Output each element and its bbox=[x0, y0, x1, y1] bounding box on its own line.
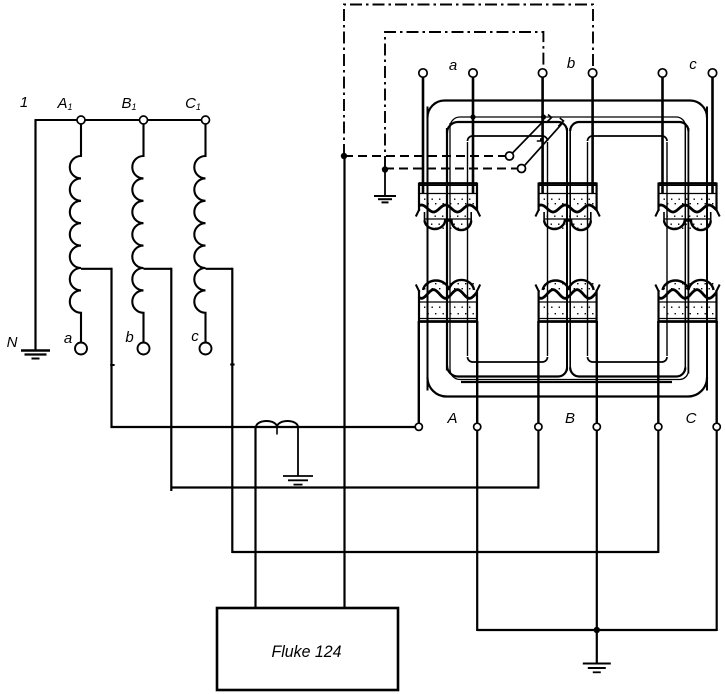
instrument Fluke 124 box bbox=[217, 608, 398, 690]
inductor winding C (upper section) bbox=[194, 124, 205, 268]
wire top link y=136 left bbox=[468, 136, 548, 141]
wire shield outer to switch (dashed) bbox=[344, 155, 505, 157]
wire winding lead vertical x=688.4 bbox=[687, 128, 689, 374]
ground N bbox=[21, 349, 50, 352]
wire bottom link y=382 bbox=[461, 381, 672, 383]
wire terminal A1 bottom lead bbox=[418, 321, 420, 423]
switch S1 jaw 1 bbox=[547, 115, 552, 123]
terminal C1 top bbox=[202, 116, 210, 124]
junction b1-y117 bbox=[541, 114, 546, 119]
terminal a bottom bbox=[75, 343, 87, 355]
ground bottom right bbox=[583, 663, 611, 665]
wire fluke lead 1 bbox=[254, 427, 256, 608]
terminal A1 top bbox=[77, 116, 85, 124]
wire terminal B1 bottom lead bbox=[537, 321, 539, 423]
wire tap C down bbox=[231, 268, 233, 553]
terminal a1 top circle bbox=[419, 69, 427, 77]
wire B2 down to ground bbox=[596, 430, 598, 663]
wire winding lead vertical x=547.5 bbox=[547, 142, 549, 356]
tap wire B bbox=[144, 268, 172, 270]
tap wire C bbox=[206, 268, 233, 270]
terminal B1 top bbox=[140, 116, 148, 124]
wire terminal A2 bottom lead bbox=[476, 321, 478, 423]
winding block c lower bbox=[655, 280, 719, 323]
winding block a lower bbox=[416, 280, 480, 323]
wire top link y=122 left bbox=[447, 122, 567, 133]
wire A2 down to ground bus bbox=[476, 430, 478, 631]
ground shield bbox=[384, 170, 386, 197]
svg-text:1: 1 bbox=[20, 94, 28, 111]
svg-text:N: N bbox=[7, 334, 18, 351]
wire N vertical bbox=[34, 120, 36, 350]
wire bottom link y=362 left bbox=[468, 357, 548, 362]
shield inner boundary (dash-dot) bbox=[385, 32, 543, 168]
wire terminal C2 bottom lead bbox=[716, 321, 718, 423]
winding block a upper bbox=[416, 183, 480, 231]
wire terminal a2 top lead bbox=[472, 77, 475, 193]
terminal C2 bottom circle bbox=[713, 423, 720, 430]
wire ground bus (y=630) bbox=[477, 629, 717, 631]
svg-text:a: a bbox=[64, 330, 72, 347]
wire winding lead vertical x=567.0 bbox=[566, 128, 568, 371]
wire B1 down to tap-B wire bbox=[537, 430, 539, 488]
wire winding lead vertical x=467.5 bbox=[467, 142, 469, 356]
switch S1 blade 2 bbox=[525, 123, 563, 165]
wire winding lead vertical x=450.0 bbox=[449, 123, 451, 374]
wire tap B horizontal (y=487.5) bbox=[171, 486, 539, 488]
svg-text:A: A bbox=[446, 410, 457, 427]
terminal A2 bottom circle bbox=[474, 423, 481, 430]
wire tap B down bbox=[170, 268, 172, 491]
terminal A1 bottom circle bbox=[415, 423, 422, 430]
inductor winding B (lower section) bbox=[132, 268, 143, 342]
junction shield inner bbox=[382, 166, 388, 172]
junction tick tap C bbox=[230, 364, 234, 366]
inductor winding C (lower section) bbox=[194, 268, 205, 342]
winding block b lower bbox=[535, 280, 599, 323]
wire terminal a1 top lead bbox=[422, 77, 425, 193]
svg-text:b: b bbox=[567, 55, 575, 72]
junction shield outer bbox=[341, 153, 347, 159]
wire terminal B2 bottom lead bbox=[596, 321, 598, 423]
wire shield inner to switch (dashed) bbox=[385, 168, 517, 170]
shield outer boundary (dash-dot) bbox=[344, 5, 593, 157]
wire winding lead vertical x=667.0 bbox=[666, 142, 668, 356]
terminal c1 top circle bbox=[658, 69, 666, 77]
junction tick tap A bbox=[110, 364, 114, 366]
winding block b upper bbox=[535, 183, 599, 231]
svg-text:Fluke 124: Fluke 124 bbox=[272, 643, 342, 661]
junction ground bus bbox=[594, 627, 600, 633]
wire top loop y=100 bbox=[428, 101, 708, 118]
wire top link y=136 right bbox=[588, 136, 668, 141]
wire fluke lead 2 bbox=[343, 156, 345, 608]
wire bottom link y=379.5 (thin) bbox=[450, 370, 688, 380]
terminal b2 top circle bbox=[588, 69, 596, 77]
svg-text:a: a bbox=[449, 57, 457, 74]
wire terminal C1 bottom lead bbox=[657, 321, 659, 423]
switch S1 contact 2 bbox=[518, 165, 526, 173]
switch S1 contact 1 bbox=[506, 152, 514, 160]
terminal c2 top circle bbox=[708, 69, 716, 77]
wire winding lead vertical x=587.5 bbox=[587, 142, 589, 356]
inductor winding A (lower section) bbox=[70, 268, 81, 342]
wire C1 down to tap-C wire bbox=[657, 430, 659, 553]
wire top bus bbox=[35, 119, 206, 121]
switch S1 blade 1 bbox=[513, 121, 544, 153]
wire terminal b1 top lead bbox=[541, 77, 544, 193]
svg-text:C: C bbox=[686, 410, 697, 427]
wire top link y=122 right bbox=[570, 122, 688, 131]
wire winding lead vertical x=447.0 bbox=[446, 128, 448, 371]
svg-text:c: c bbox=[689, 56, 697, 73]
terminal C1 bottom circle bbox=[655, 423, 662, 430]
current probe coil bbox=[256, 421, 298, 427]
inductor winding A (upper section) bbox=[70, 124, 81, 268]
wire top link y=117 (thin) bbox=[450, 117, 685, 127]
junction a2-y117 bbox=[470, 114, 475, 119]
wire terminal b2 top lead bbox=[591, 77, 594, 193]
wire phase A to terminal A1 (y=427) bbox=[111, 426, 416, 428]
terminal c bottom bbox=[200, 343, 212, 355]
switch S1 jaw 2 bbox=[558, 118, 563, 126]
wire winding lead vertical x=570.2 bbox=[569, 128, 571, 371]
tap wire A bbox=[81, 268, 112, 270]
terminal b1 top circle bbox=[538, 69, 546, 77]
inductor winding B (upper section) bbox=[132, 124, 143, 268]
svg-text:B: B bbox=[565, 410, 575, 427]
wire bottom link y=362 right bbox=[588, 357, 668, 362]
wire terminal c2 top lead bbox=[711, 77, 714, 193]
terminal b bottom bbox=[138, 343, 150, 355]
wire winding lead vertical x=707.0 bbox=[706, 107, 708, 391]
wire C2 down to ground bus bbox=[716, 430, 718, 631]
wire winding lead vertical x=427.5 bbox=[427, 107, 429, 391]
wire tap C horizontal (y=552) bbox=[232, 551, 658, 553]
ground current probe bbox=[297, 427, 299, 476]
terminal B2 bottom circle bbox=[593, 423, 600, 430]
wire bottom loop y=396.5 bbox=[428, 378, 708, 397]
switch S1 jaw 3 bbox=[537, 138, 541, 141]
terminal B1 bottom circle bbox=[535, 423, 542, 430]
svg-text:c: c bbox=[191, 328, 199, 345]
wire bottom link y=376.5 left bbox=[447, 366, 567, 377]
wire tap A down bbox=[110, 268, 112, 428]
winding block c upper bbox=[655, 183, 719, 231]
wire winding lead vertical x=685.3 bbox=[684, 123, 686, 371]
svg-text:b: b bbox=[125, 329, 133, 346]
wire terminal c1 top lead bbox=[661, 77, 664, 193]
wire bottom link y=376.5 right bbox=[570, 368, 685, 377]
terminal a2 top circle bbox=[469, 69, 477, 77]
